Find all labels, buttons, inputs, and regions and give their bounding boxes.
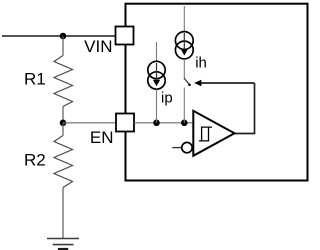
junction dot node EN divider [60,120,67,127]
hysteresis symbol [199,127,212,141]
svg-text:R2: R2 [24,151,46,170]
wire R1 bottom to node EN [62,107,64,123]
wire EN pin to comparator input net [134,122,194,124]
wire comparator output [235,133,256,135]
wire node to R2 top [62,123,64,136]
wire feedback vertical [254,83,256,134]
feedback arrow into switch [194,80,201,86]
ground [47,239,79,250]
svg-text:VIN: VIN [84,37,112,56]
current source ip [148,61,165,89]
inverting input stub [172,147,181,149]
svg-text:EN: EN [90,128,114,147]
resistor R1 [54,56,73,107]
wire node input to R1 top [62,36,64,56]
wire switch to EN net [183,88,185,123]
resistor R2 [54,136,73,188]
op-amp comparator U2 [193,111,234,156]
svg-text:ip: ip [161,90,173,107]
svg-text:R1: R1 [24,70,46,89]
inverting input bubble [182,142,192,152]
junction dot switch on EN net [181,120,188,127]
wire feedback horizontal [201,82,255,84]
wire node to EN pin [63,122,117,124]
wire R2 bottom to ground [62,188,64,239]
wire stub above current source ih [183,6,185,32]
wire stub above current source ip [156,42,158,62]
svg-text:ih: ih [195,55,207,72]
IC box U1 [126,4,308,181]
switch blade [184,78,191,86]
current source ih [175,32,193,59]
pin VIN square [116,27,134,45]
wire ih to switch [183,59,185,78]
junction dot ip source on EN net [153,120,160,127]
junction dot input/R1 [60,33,67,40]
wire input net to VIN pin [2,35,116,37]
pin EN square [116,114,134,132]
wire ip to EN net [156,89,158,123]
